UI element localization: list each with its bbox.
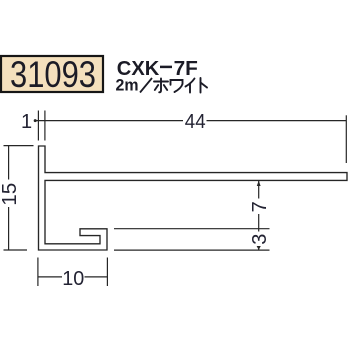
extension line from hook top [114,228,270,230]
svg-text:7F: 7F [174,57,198,80]
svg-text:1: 1 [21,111,32,133]
katakana wa [171,80,183,92]
svg-text:31093: 31093 [10,54,96,95]
bottom tick of 15 [4,249,28,251]
dimension line for 1 and 44 [35,120,347,122]
extension line left of wall (1) [37,111,39,141]
fullwidth slash [140,78,152,93]
katakana to [201,78,208,93]
part number box [1,56,103,92]
white backing of 15 label [0,180,18,208]
bottom arrow of 3 [257,246,261,250]
dimension line 15 [8,146,10,250]
svg-text:7: 7 [249,201,271,212]
extension line right of foot (10) [106,258,108,287]
dot terminator of dimension 1 [34,119,37,122]
top tick of 15 [4,145,34,147]
dash in product code [160,66,172,69]
dimension line 7-3 [258,181,260,250]
white backing of 7 label [251,199,268,215]
top arrow of 7 [257,181,261,187]
svg-text:3: 3 [249,234,271,245]
katakana ho [154,79,168,93]
katakana i [186,79,195,93]
extension line from profile bottom [114,249,270,251]
extension line right end of 44 [345,115,347,163]
extension line left of foot (10) [37,258,39,287]
extension line right of wall (1) [44,111,46,141]
profile outline [39,146,348,250]
svg-text:2m: 2m [116,76,139,95]
dimension line 10 [38,276,108,278]
svg-text:10: 10 [62,268,84,290]
white backing of 3 label [251,232,268,247]
svg-text:44: 44 [185,111,206,133]
svg-text:15: 15 [0,183,21,206]
